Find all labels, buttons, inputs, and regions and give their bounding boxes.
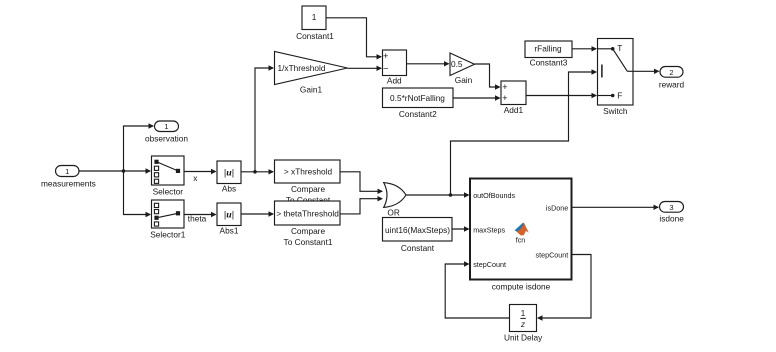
inport measurements [56,166,80,177]
svg-text:uint16(MaxSteps): uint16(MaxSteps) [385,225,450,235]
svg-text:Switch: Switch [603,106,628,116]
svg-text:> thetaThreshold: > thetaThreshold [276,208,339,218]
svg-text:compute isdone: compute isdone [492,281,551,291]
constant Constant2 [383,88,454,108]
wire Constant3 to Switch T input [572,46,597,51]
wire Constant1 to Add [326,18,382,60]
svg-text:Compare: Compare [291,184,326,194]
or gate OR [384,183,406,208]
label Compare To Constant1 [284,226,333,247]
svg-text:1: 1 [312,12,317,22]
svg-text:T: T [617,43,622,53]
svg-text:To Constant1: To Constant1 [284,237,333,247]
outport reward [660,67,683,78]
wire compute isdone isDone to isdone port [572,205,660,210]
svg-text:maxSteps: maxSteps [473,225,505,234]
svg-text:outOfBounds: outOfBounds [473,191,515,200]
svg-text:Compare: Compare [291,226,326,236]
svg-text:Constant: Constant [401,243,435,253]
wire branch down to Selector1 [124,171,152,217]
svg-text:1: 1 [521,309,526,318]
svg-text:reward: reward [659,80,685,90]
outport observation [155,121,179,132]
svg-text:1: 1 [164,122,168,131]
wire Gain1 to Add [348,66,383,71]
svg-text:Add1: Add1 [504,105,524,115]
svg-text:|u|: |u| [224,210,234,221]
wire junction up to Switch control [451,69,598,195]
svg-text:Selector1: Selector1 [150,230,185,240]
sum Add [383,50,407,76]
svg-text:fcn: fcn [516,235,526,244]
svg-text:+: + [502,93,507,103]
svg-text:Unit Delay: Unit Delay [504,332,543,342]
svg-text:z: z [520,320,525,329]
gain Gain [450,53,475,76]
svg-text:F: F [617,90,622,100]
unit delay Unit Delay [510,305,537,332]
wire Add to Gain [407,61,450,66]
junction on measurements wire [122,169,126,173]
svg-text:stepCount: stepCount [536,250,569,259]
wire Constant2 to Add1 input2 [453,95,501,100]
constant Constant1 [302,6,326,30]
svg-text:Gain: Gain [455,75,473,85]
svg-text:Gain1: Gain1 [300,85,323,95]
label Compare To Constant [286,184,331,205]
wire Selector1 to Abs1 [184,212,217,217]
subsystem compute isdone [470,179,572,280]
wire Gain to Add1 input1 [475,64,501,90]
svg-text:0.5*rNotFalling: 0.5*rNotFalling [390,93,445,103]
svg-text:+: + [383,51,388,61]
compare block Compare To Constant [275,160,341,183]
svg-text:Add: Add [387,76,402,86]
abs block Abs [217,161,241,184]
svg-text:1/xThreshold: 1/xThreshold [278,63,326,73]
junction on OR output wire [449,193,453,197]
wire Add1 to Switch F input [526,93,597,98]
outport isdone [660,202,684,213]
compare block Compare To Constant1 [275,201,341,225]
svg-text:Constant2: Constant2 [399,109,437,119]
matlab function icon fcn [515,222,529,244]
switch Switch [598,39,634,106]
wire OR to compute isdone outOfBounds [406,192,470,197]
wire Abs to Compare To Constant [241,169,274,174]
svg-text:stepCount: stepCount [473,260,506,269]
svg-text:isDone: isDone [546,203,568,212]
svg-text:1: 1 [65,167,69,176]
svg-text:−: − [383,63,388,73]
svg-text:isdone: isdone [659,214,684,224]
svg-text:rFalling: rFalling [534,43,562,53]
svg-text:theta: theta [188,213,207,223]
svg-text:0.5: 0.5 [451,59,463,69]
gain Gain1 [275,52,348,85]
svg-text:observation: observation [145,133,188,143]
wire Selector to Abs [184,169,217,174]
wire Compare To Constant to OR input1 [341,172,384,194]
selector Selector [152,156,185,185]
wire measurements to Selector [79,168,151,173]
svg-text:Abs: Abs [222,184,236,194]
wire compute isdone stepCount to Unit Delay [537,255,591,321]
wire junction up to Gain1 [255,65,274,172]
constant Constant [383,218,453,242]
svg-text:Selector: Selector [153,187,184,197]
selector Selector1 [152,200,185,228]
svg-text:measurements: measurements [41,178,96,188]
svg-text:Constant3: Constant3 [530,58,568,68]
wire branch up to observation [124,123,155,171]
wire Unit Delay to compute isdone stepCount [445,261,509,318]
wire Compare To Constant1 to OR input2 [341,196,384,214]
wire Switch to reward [633,69,660,74]
svg-text:|u|: |u| [224,168,234,179]
svg-text:+: + [502,82,507,92]
svg-text:OR: OR [387,208,399,218]
constant Constant3 [525,41,572,58]
sum Add1 [501,81,526,105]
svg-text:> xThreshold: > xThreshold [284,167,333,177]
svg-text:Abs1: Abs1 [220,226,239,236]
wire Constant to compute isdone maxSteps [452,226,470,231]
svg-text:2: 2 [669,68,673,77]
svg-text:3: 3 [669,203,673,212]
abs block Abs1 [217,203,241,226]
junction on Abs output [253,170,257,174]
wire Abs1 to Compare To Constant1 [241,211,274,216]
svg-text:Constant1: Constant1 [296,31,334,41]
